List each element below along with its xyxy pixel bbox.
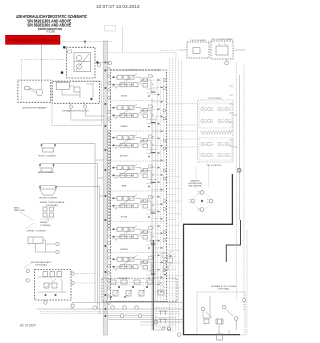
svg-text:10:07:37 13.03.2013: 10:07:37 13.03.2013: [96, 4, 140, 9]
thick line to cooler: [226, 220, 240, 262]
svg-text:(OPTIONAL): (OPTIONAL): [35, 263, 47, 266]
bottom nodes: [44, 301, 181, 337]
svg-text:B1: B1: [152, 228, 154, 230]
slew motor M1 w/brake: [18, 44, 51, 109]
wire bottom manifold: [37, 303, 184, 314]
tank line junction dots: [104, 61, 106, 317]
svg-text:Printable Version: Click Here: Printable Version: Click Here: [9, 38, 58, 43]
arm cylinder: [38, 164, 54, 174]
pilot lines inside right margin: [157, 78, 163, 300]
svg-text:B1: B1: [152, 197, 154, 199]
svg-text:A1: A1: [152, 83, 154, 86]
svg-text:ARM: ARM: [122, 185, 127, 188]
valve section ARM: [112, 164, 166, 188]
section separator: [111, 190, 167, 192]
svg-text:OFFSET: OFFSET: [120, 249, 129, 251]
svg-text:2X JOYSTICK: 2X JOYSTICK: [208, 98, 222, 100]
second auxiliary valve (optional): [24, 261, 95, 300]
page number: [20, 323, 36, 327]
svg-text:(PRINTED FEBRUARY 2003): (PRINTED FEBRUARY 2003): [38, 27, 62, 31]
valve section OFFSET: [112, 226, 166, 252]
wires lower right: [140, 322, 184, 330]
ticks on right bus: [229, 86, 233, 146]
boom cylinder: [39, 186, 57, 200]
return bus right margin: [237, 63, 248, 335]
svg-text:BUCKET: BUCKET: [120, 156, 129, 158]
swing cylinder label: [25, 222, 51, 229]
pump block P1: [61, 41, 113, 79]
thick valve feed: [108, 240, 184, 330]
grid ref D: [237, 168, 242, 175]
2x joystick LH: [198, 98, 234, 167]
back line label: [14, 206, 33, 220]
svg-text:(OPTIONAL): (OPTIONAL): [218, 288, 230, 291]
svg-text:CYLINDER: CYLINDER: [40, 225, 51, 227]
pilot branch stubs: [167, 170, 182, 294]
svg-text:HYDRAULIC OIL COOLER: HYDRAULIC OIL COOLER: [211, 285, 237, 288]
tooltip box: [105, 26, 123, 53]
svg-text:B1: B1: [152, 76, 154, 78]
svg-text:HOIST CYLINDER: HOIST CYLINDER: [38, 156, 56, 158]
svg-text:D: D: [237, 168, 242, 175]
valve section AUXILIARY: [112, 256, 166, 280]
offset cylinder: [26, 231, 59, 254]
title block: [16, 14, 88, 34]
svg-text:SWIVEL TO/FROM VALVE: SWIVEL TO/FROM VALVE: [40, 201, 65, 204]
wire hoist to valve: [55, 144, 103, 303]
valve section BUCKET: [112, 134, 166, 158]
hydraulic oil cooler optional: [197, 285, 246, 340]
svg-text:BOOM CYLINDER: BOOM CYLINDER: [39, 198, 57, 200]
pilot lines joystick to pad: [196, 166, 209, 190]
svg-text:RH JOYSTICK: RH JOYSTICK: [207, 165, 221, 167]
wire boom to valve: [56, 187, 103, 314]
fuel cooler: [209, 38, 245, 65]
remote control pad labels: [188, 181, 203, 188]
section separator: [111, 252, 167, 254]
valve section BLADE: [112, 104, 166, 128]
inlet section: [102, 278, 177, 301]
svg-text:BACK: BACK: [14, 206, 20, 209]
svg-text:B1: B1: [152, 107, 154, 109]
valve section SLEW: [112, 74, 166, 98]
svg-text:(REF LINE): (REF LINE): [14, 210, 25, 212]
section separator: [111, 221, 167, 223]
svg-text:OIL COOLER BYPASS: OIL COOLER BYPASS: [212, 38, 234, 41]
hoist cylinder: [38, 144, 56, 158]
wire main pressure: [96, 53, 176, 71]
svg-text:SLEW: SLEW: [121, 96, 127, 98]
oil cooler: [160, 40, 209, 58]
section separator: [111, 160, 167, 162]
section separator: [111, 130, 167, 132]
wire pump supply: [22, 60, 67, 104]
thick return line right: [184, 174, 241, 335]
svg-text:SLEW MOTOR W/BRAKE: SLEW MOTOR W/BRAKE: [22, 107, 47, 110]
tank block bottom: [156, 308, 171, 331]
svg-text:PAD SHOWN: PAD SHOWN: [189, 185, 202, 188]
svg-text:A1: A1: [152, 114, 154, 117]
relief valves mid right: [161, 251, 173, 275]
remote control pad valves: [189, 190, 214, 212]
svg-text:(OPTIONAL): (OPTIONAL): [46, 204, 58, 207]
main control valve block outline: [111, 70, 167, 302]
excavator port block: [52, 81, 103, 125]
printable version banner: [6, 35, 61, 44]
valve block port circles: [108, 62, 111, 305]
joystick connections: [167, 104, 238, 148]
swivel to/from valve: [40, 201, 65, 222]
port arrows right of valve: [150, 79, 163, 293]
svg-text:BLADE: BLADE: [121, 125, 128, 128]
tank return line bus: [103, 41, 107, 335]
section separator: [111, 282, 167, 284]
pilot lines bus to joysticks: [170, 58, 182, 332]
wire arm to valve: [54, 164, 104, 310]
valve section BOOM: [112, 195, 166, 219]
svg-text:V-3280: V-3280: [46, 32, 56, 34]
svg-text:A1: A1: [152, 144, 154, 147]
svg-text:62 of 1537: 62 of 1537: [20, 323, 36, 327]
timestamp: [96, 4, 140, 9]
svg-text:SECOND AUXILIARY: SECOND AUXILIARY: [31, 261, 52, 264]
svg-text:ARM CYLINDER: ARM CYLINDER: [38, 171, 54, 174]
work line vertical: [152, 98, 156, 330]
section separator: [111, 100, 167, 102]
svg-text:A1: A1: [152, 204, 154, 207]
svg-text:A1: A1: [152, 235, 154, 238]
svg-text:BOOM: BOOM: [121, 217, 128, 219]
svg-text:OFFSET CYLINDER: OFFSET CYLINDER: [26, 231, 46, 233]
